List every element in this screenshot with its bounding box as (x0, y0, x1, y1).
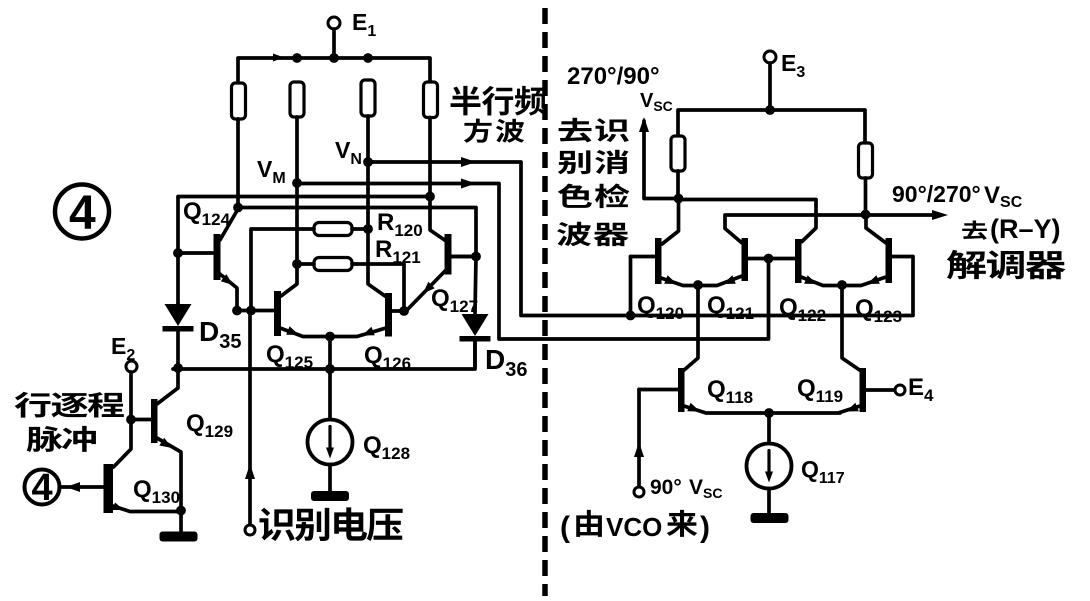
svg-text:): ) (700, 511, 710, 544)
svg-text:VCO: VCO (606, 512, 662, 542)
svg-text:4: 4 (32, 467, 53, 509)
svg-text:90°/270°: 90°/270° (892, 181, 981, 207)
svg-text:270°/90°: 270°/90° (567, 63, 660, 90)
svg-text:(R–Y): (R–Y) (990, 214, 1061, 244)
svg-text:4: 4 (69, 187, 96, 240)
svg-text:(: ( (560, 511, 570, 544)
svg-text:90°: 90° (650, 476, 682, 499)
